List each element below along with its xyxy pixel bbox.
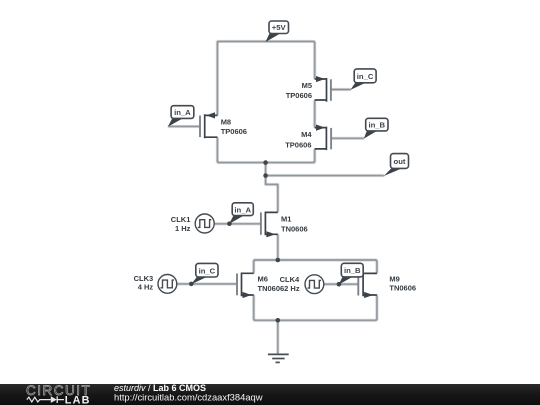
flag +5V bbox=[265, 21, 288, 42]
voltage source CLK3 bbox=[134, 274, 177, 293]
svg-text:TP0606: TP0606 bbox=[286, 91, 312, 100]
transistor M8 TP0606 (PMOS) bbox=[200, 112, 247, 138]
flag in_C (M5 gate) bbox=[350, 69, 376, 90]
svg-text:TP0606: TP0606 bbox=[221, 127, 247, 136]
wire CLK4 to M9 gate bbox=[324, 283, 359, 285]
svg-text:TN0606: TN0606 bbox=[281, 224, 308, 233]
svg-text:TN0606: TN0606 bbox=[258, 284, 285, 293]
svg-text:in_B: in_B bbox=[368, 121, 385, 130]
svg-text:in_B: in_B bbox=[344, 266, 361, 275]
svg-text:M8: M8 bbox=[221, 118, 231, 127]
wire drain join horizontal bbox=[217, 162, 314, 164]
svg-text:M5: M5 bbox=[302, 81, 312, 90]
svg-text:in_C: in_C bbox=[357, 72, 374, 81]
svg-text:4 Hz: 4 Hz bbox=[138, 282, 154, 291]
svg-text:M6: M6 bbox=[258, 275, 268, 284]
flag in_A (M1 gate) bbox=[229, 203, 253, 224]
voltage source CLK1 bbox=[171, 214, 214, 233]
transistor M5 TP0606 (PMOS) bbox=[286, 76, 331, 102]
svg-text:out: out bbox=[394, 157, 406, 166]
ground bbox=[268, 354, 289, 362]
flag in_C (M6 gate) bbox=[191, 263, 218, 284]
transistor M9 TN0606 (NMOS) bbox=[358, 273, 416, 299]
svg-text:M1: M1 bbox=[281, 215, 291, 224]
junction dot M1 source rail bbox=[276, 258, 281, 263]
wire ground stub bbox=[277, 320, 279, 354]
svg-text:CLK4: CLK4 bbox=[280, 275, 300, 284]
svg-text:TN0606: TN0606 bbox=[389, 284, 416, 293]
svg-text:M9: M9 bbox=[389, 275, 399, 284]
junction dot ground rail bbox=[276, 318, 281, 323]
svg-text:1 Hz: 1 Hz bbox=[175, 224, 191, 233]
wire M5 drain to M4 source bbox=[314, 100, 316, 128]
transistor M4 TP0606 (PMOS) bbox=[285, 125, 331, 151]
flag in_B (M4 gate) bbox=[364, 118, 388, 138]
wire M1 source down to rail bbox=[277, 234, 279, 260]
svg-text:in_C: in_C bbox=[199, 266, 216, 275]
wire CLK3 to M6 gate bbox=[177, 283, 237, 285]
svg-text:in_A: in_A bbox=[174, 108, 191, 117]
wire M4 gate lead bbox=[331, 137, 364, 139]
wire out net bbox=[266, 175, 385, 177]
svg-text:in_A: in_A bbox=[234, 205, 251, 214]
wire parallel top rail bbox=[254, 259, 377, 261]
junction dot at in_C tap bbox=[189, 282, 194, 287]
wire right branch to M5 source bbox=[314, 41, 316, 79]
wire M6 source down bbox=[253, 295, 255, 320]
wire M6 drain to rail bbox=[253, 260, 255, 273]
wire M4 drain down bbox=[314, 149, 316, 163]
wire left branch to M8 source bbox=[216, 41, 218, 115]
wire top rail +5V bbox=[217, 40, 315, 42]
transistor M1 TN0606 (NMOS) bbox=[261, 212, 308, 238]
flag in_B (M9 gate) bbox=[339, 263, 363, 284]
wire jog to M1 drain bbox=[266, 176, 278, 213]
wire M9 source down bbox=[376, 295, 378, 320]
junction dot at out tap bbox=[263, 173, 268, 178]
CircuitLab logo bbox=[26, 383, 91, 405]
transistor M6 TN0606 (NMOS) bbox=[237, 273, 284, 299]
junction dot at in_A tap bbox=[227, 221, 232, 226]
wire M8 drain down bbox=[216, 137, 218, 162]
voltage source CLK4 bbox=[280, 275, 324, 294]
wire M5 gate lead bbox=[331, 89, 351, 91]
flag in_A (M8 gate) bbox=[168, 106, 194, 127]
svg-text:TP0606: TP0606 bbox=[285, 141, 311, 150]
junction dot at in_B tap bbox=[337, 282, 342, 287]
wire parallel bottom rail bbox=[254, 319, 377, 321]
wire M8 gate lead bbox=[168, 125, 200, 127]
junction dot at drain join bbox=[263, 160, 268, 165]
wire M9 drain to rail bbox=[376, 260, 378, 273]
svg-text:M4: M4 bbox=[301, 130, 312, 139]
footer bar bbox=[0, 384, 540, 405]
svg-text:http://circuitlab.com/cdzaaxf3: http://circuitlab.com/cdzaaxf384aqw bbox=[114, 391, 263, 402]
flag out bbox=[384, 154, 409, 176]
wire CLK1 to M1 gate bbox=[214, 223, 261, 225]
svg-text:LAB: LAB bbox=[65, 395, 91, 405]
wire node down from junction bbox=[265, 163, 267, 176]
svg-text:2 Hz: 2 Hz bbox=[284, 284, 300, 293]
svg-text:+5V: +5V bbox=[272, 23, 287, 32]
